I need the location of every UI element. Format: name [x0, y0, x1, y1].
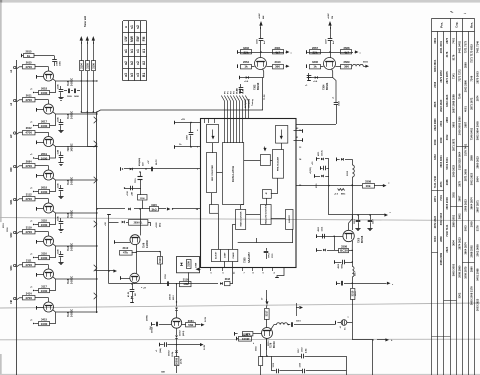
svg-text:c1: c1	[136, 49, 140, 53]
svg-text:456(AM): 456(AM)	[138, 158, 141, 166]
svg-text:3050A: 3050A	[151, 327, 154, 333]
junction 334 vertical	[334, 236, 335, 237]
svg-text:s1: s1	[130, 25, 134, 29]
stage 4 base stub	[36, 174, 38, 178]
stub row 159	[316, 157, 318, 161]
capacitor decoupling stage 1	[60, 86, 62, 90]
svg-text:3602: 3602	[433, 37, 437, 43]
svg-text:COMP: COMP	[224, 252, 226, 258]
svg-text:3003: 3003	[433, 236, 437, 242]
svg-text:4k7: 4k7	[344, 50, 349, 54]
svg-text:3605 2008: 3605 2008	[445, 197, 449, 210]
arrow row 209	[168, 208, 169, 210]
wire lower cap row	[124, 188, 141, 190]
svg-text:3310: 3310	[275, 60, 281, 64]
arrow AM out AM	[286, 66, 288, 68]
wire AM emitter to bus	[262, 78, 264, 111]
svg-text:PRE-SCALER: PRE-SCALER	[276, 156, 279, 171]
svg-text:4700: 4700	[25, 98, 32, 102]
scan top-left dark corner	[0, 0, 2, 3]
svg-text:7271 7173 6315: 7271 7173 6315	[469, 44, 473, 63]
resistor 3306 FM	[310, 65, 321, 69]
stage 1 bus tap circle	[14, 66, 16, 68]
svg-text:5401 5402: 5401 5402	[457, 40, 461, 53]
capacitor 1319 output	[276, 369, 278, 374]
capacitor output row	[288, 324, 290, 326]
resistor 3116	[39, 256, 50, 260]
IC sub-block PHASE COMPARATOR wide	[212, 250, 238, 262]
resistor 3111	[23, 263, 36, 267]
antenna wire 3 upper	[93, 42, 95, 61]
svg-text:7146: 7146	[457, 93, 461, 99]
arrow row 215	[384, 214, 386, 216]
svg-text:3602 3604 2008: 3602 3604 2008	[475, 121, 479, 140]
stage 3 emitter terminator	[35, 158, 39, 160]
wire FM emitter down	[333, 78, 336, 103]
transistor 7140 base stub	[114, 240, 116, 244]
svg-text:3111: 3111	[26, 259, 32, 263]
svg-text:1005: 1005	[56, 60, 58, 66]
svg-text:390: 390	[275, 65, 280, 69]
svg-text:S310: S310	[347, 170, 349, 176]
svg-text:2865: 2865	[469, 155, 473, 161]
svg-text:30005: 30005	[147, 314, 149, 321]
wire collector FM	[330, 52, 332, 58]
svg-text:BLPC: BLPC	[156, 159, 158, 165]
svg-text:7305: 7305	[244, 257, 247, 263]
svg-text:7148: 7148	[67, 179, 70, 185]
IC right stub row 131	[294, 130, 303, 132]
IC sub-block varactor box right	[276, 126, 288, 144]
resistor 3414	[23, 296, 36, 300]
svg-text:SWALLOW COUNTER: SWALLOW COUNTER	[264, 204, 267, 224]
svg-text:3415: 3415	[41, 318, 47, 322]
stage 5 base stub	[36, 207, 38, 211]
parts table row separator	[432, 252, 438, 254]
transistor stage 6	[44, 236, 54, 246]
inductor S310 coil	[352, 165, 354, 177]
stage 3 emitter branch wire	[50, 147, 56, 159]
wire module down	[188, 272, 190, 283]
svg-text:2815: 2815	[26, 50, 32, 54]
transistor stage 3	[44, 137, 54, 147]
arrow out top FM	[355, 52, 357, 54]
svg-text:71.06: 71.06	[264, 94, 266, 100]
svg-text:4700: 4700	[25, 230, 32, 234]
svg-text:7401 7146: 7401 7146	[475, 40, 479, 53]
wire FM emitter to IC pin	[296, 124, 336, 126]
capacitor 1317 output	[301, 354, 303, 359]
diode emitter FM	[315, 76, 318, 79]
resistor 3310 AM	[273, 65, 284, 69]
svg-text:3003: 3003	[463, 225, 467, 231]
wire cap to junction FM	[330, 41, 332, 52]
svg-text:BC/3C: BC/3C	[274, 341, 276, 348]
svg-text:22k: 22k	[312, 50, 317, 54]
lamp bulb	[341, 320, 347, 326]
wire tuning voltage bus	[97, 110, 261, 112]
transistor 7305 collector	[348, 223, 350, 230]
resistor 30006 vert	[175, 357, 179, 366]
svg-text:(2.2k): (2.2k)	[172, 351, 174, 357]
arrow supply AM +4.6V AM	[260, 23, 262, 29]
diode 6113	[109, 222, 119, 224]
page fold line bottom	[0, 338, 480, 341]
svg-text:2871 2872: 2871 2872	[439, 70, 443, 83]
svg-text:7271 7272: 7271 7272	[457, 69, 461, 82]
wire tuning diode row	[124, 168, 201, 170]
transistor stage 2	[44, 104, 54, 114]
svg-text:3002 3003: 3002 3003	[439, 212, 443, 225]
svg-text:2668: 2668	[344, 46, 350, 50]
board edge connector chevron	[94, 117, 97, 123]
resistor 3061	[182, 324, 186, 326]
svg-text:3119: 3119	[26, 226, 32, 230]
page fold line upper	[0, 218, 480, 221]
transistor stage 7	[44, 269, 54, 279]
parts table row separator	[450, 206, 462, 208]
svg-text:7148: 7148	[67, 80, 70, 86]
resistor 3100 isolated	[236, 337, 238, 341]
stage 2 emitter branch wire	[50, 114, 56, 126]
capacitor 1313	[322, 234, 324, 239]
svg-text:2687: 2687	[457, 195, 461, 201]
resistor antenna 3	[92, 61, 96, 71]
svg-text:3105: 3105	[85, 63, 89, 69]
svg-text:3118: 3118	[41, 219, 47, 223]
junction dots stage1 output with antenna wires	[81, 80, 82, 81]
stage 2 bus tap circle	[14, 99, 16, 101]
parts table row separator	[462, 262, 474, 264]
wire supply vertical FM	[330, 27, 332, 39]
svg-text:7148: 7148	[67, 113, 70, 119]
svg-text:3k3: 3k3	[151, 207, 156, 211]
wire vertical 329 tap	[328, 159, 330, 215]
resistor 3115	[150, 207, 159, 212]
terminator below IC right	[277, 267, 284, 277]
IC sub-block REF COUNTER	[207, 153, 217, 193]
svg-text:3061: 3061	[188, 319, 194, 323]
svg-text:3302: 3302	[457, 292, 461, 298]
output network left vertical resistor	[260, 344, 262, 357]
svg-text:+H: +H	[143, 288, 146, 290]
svg-text:2687: 2687	[463, 121, 467, 127]
wire junction right FM	[330, 52, 353, 54]
stage 2 emitter terminator	[35, 125, 39, 127]
wire FET down	[140, 184, 142, 195]
svg-text:2874: 2874	[475, 95, 479, 101]
stage 7 emitter terminator	[35, 290, 39, 292]
svg-text:7305: 7305	[359, 237, 361, 243]
svg-text:3302 2623: 3302 2623	[445, 94, 449, 107]
output network bottom wire	[272, 370, 276, 372]
wire VCO feed vertical	[266, 290, 268, 301]
svg-text:14303C: 14303C	[146, 240, 149, 248]
svg-text:3112: 3112	[122, 246, 128, 250]
stage 5 emitter terminator	[35, 224, 39, 226]
capacitor 4313	[342, 260, 344, 265]
svg-text:c2: c2	[136, 61, 140, 65]
svg-text:2874 2875: 2874 2875	[445, 71, 449, 84]
svg-text:14303C: 14303C	[71, 276, 74, 284]
capacitor 1316	[358, 215, 360, 220]
resistor 3116 bottom	[180, 282, 192, 287]
transistor 7176 output	[262, 328, 273, 339]
arrow out top AM	[286, 52, 288, 54]
inductor S310 vertical	[352, 159, 354, 165]
svg-text:3176: 3176	[445, 51, 449, 57]
svg-text:1000: 1000	[41, 322, 48, 326]
svg-text:5401 2088: 5401 2088	[475, 268, 479, 281]
FET 7115	[140, 172, 142, 177]
svg-text:7401: 7401	[439, 195, 443, 201]
stub into S310	[336, 158, 338, 162]
svg-text:2618: 2618	[41, 87, 47, 91]
zigzag below wire 185	[338, 189, 345, 191]
svg-text:3113: 3113	[158, 257, 162, 263]
stage 8 output wire	[53, 310, 97, 312]
svg-text:3302: 3302	[433, 154, 437, 160]
arrow supply FM +4.6V FM	[330, 23, 332, 29]
antenna wire 1 lower	[81, 71, 83, 112]
svg-text:3602: 3602	[457, 213, 461, 219]
transistor stage 4	[44, 170, 54, 180]
box 2009 delay	[129, 220, 148, 226]
svg-text:AFC(FM): AFC(FM)	[244, 99, 247, 108]
svg-text:OSC(AM): OSC(AM)	[248, 99, 251, 108]
resistor 2669 FM	[341, 65, 352, 69]
wire vertical 373 down	[372, 340, 374, 375]
IC U1 outline	[201, 119, 297, 268]
capacitor decoupling stage 4	[60, 185, 62, 189]
svg-text:2623: 2623	[445, 246, 449, 252]
resistor 3119	[23, 230, 36, 234]
IC sub-block divider small box	[263, 190, 272, 199]
stage 3 output wire	[53, 144, 97, 146]
svg-text:7371 7373: 7371 7373	[463, 40, 467, 53]
wire emitter to output network	[266, 339, 268, 357]
transistor 7141 base wire	[120, 276, 122, 280]
svg-text:2875: 2875	[445, 37, 449, 43]
svg-text:2860: 2860	[439, 236, 443, 242]
wire junction right AM	[261, 52, 284, 54]
stub row 168	[320, 166, 322, 170]
diode below 7175	[176, 328, 178, 335]
wire base row 236	[316, 234, 318, 238]
resistor antenna 2	[86, 61, 90, 71]
wire 296 arrow	[296, 303, 298, 316]
svg-text:BC: BC	[135, 292, 137, 296]
svg-text:3002 2623: 3002 2623	[469, 172, 473, 185]
resistor 3310 vertical	[352, 283, 354, 288]
resistor 2815 stage1 top feed	[21, 54, 23, 58]
scan bottom edge line	[0, 374, 480, 375]
svg-text:(BC): (BC)	[160, 222, 162, 227]
svg-text:2008: 2008	[433, 81, 437, 87]
svg-text:7141 7146: 7141 7146	[433, 175, 437, 188]
stage 1 output wire	[53, 79, 97, 81]
parts table column line 3	[443, 31, 445, 375]
svg-text:3604: 3604	[475, 176, 479, 182]
svg-text:2860: 2860	[445, 116, 449, 122]
svg-text:1000: 1000	[41, 124, 48, 128]
wire row 283 out	[352, 283, 353, 284]
svg-text:3104: 3104	[79, 63, 83, 69]
parts table column line 1	[431, 18, 433, 375]
svg-text:2088 2089: 2088 2089	[439, 252, 443, 265]
svg-text:(LW): (LW)	[306, 348, 308, 353]
svg-text:a1: a1	[124, 49, 128, 53]
output network side verticals	[271, 356, 273, 371]
svg-text:MW: MW	[130, 35, 134, 42]
svg-text:30112: 30112	[268, 340, 270, 346]
transistor 7141	[130, 273, 140, 283]
svg-text:a2: a2	[124, 61, 128, 65]
lamp socket indicator	[335, 321, 337, 325]
wire chain 176 top	[176, 283, 177, 284]
svg-text:3605: 3605	[433, 101, 437, 107]
svg-text:3115: 3115	[151, 203, 157, 207]
svg-text:5402 5401: 5402 5401	[445, 157, 449, 170]
wire junction to transistor	[140, 209, 142, 235]
svg-text:b2: b2	[130, 61, 134, 65]
antenna bus collector wire	[81, 112, 97, 114]
wire IC pin to +5V rail	[175, 122, 201, 124]
resistor 2618	[39, 91, 50, 95]
antenna feed arrow 3	[93, 38, 95, 44]
capacitor diode row	[151, 167, 153, 172]
stage 6 collector wire	[17, 232, 23, 234]
svg-text:2008 2623: 2008 2623	[463, 199, 467, 212]
svg-text:7146 5402: 7146 5402	[469, 127, 473, 140]
svg-text:A2: A2	[142, 61, 146, 65]
svg-text:2088 3302: 2088 3302	[469, 245, 473, 258]
resistor 3415	[39, 322, 50, 326]
svg-text:2669: 2669	[344, 60, 350, 64]
svg-text:7141: 7141	[451, 73, 455, 79]
svg-text:+1660: +1660	[156, 221, 158, 228]
antenna wire 2 lower	[87, 71, 89, 112]
inductor 5615 FM	[353, 64, 364, 66]
svg-text:A1: A1	[142, 49, 146, 53]
resistor 3317 vertical	[265, 309, 270, 320]
svg-text:2865: 2865	[463, 62, 467, 68]
svg-text:1009 3003 2080: 1009 3003 2080	[457, 116, 461, 135]
svg-text:MAIN COUNTER: MAIN COUNTER	[239, 211, 242, 226]
stage 5 output wire	[53, 211, 97, 213]
base row bar FM	[306, 64, 308, 68]
IC internal wires	[212, 143, 293, 267]
emitter row FM	[309, 77, 333, 79]
parts table row separator	[432, 336, 451, 338]
junction dot bus	[96, 111, 97, 112]
svg-text:3603 3604: 3603 3604	[433, 59, 437, 72]
svg-text:4700: 4700	[25, 65, 32, 69]
svg-text:Res.: Res.	[470, 22, 474, 28]
svg-text:BC548: BC548	[361, 235, 364, 243]
svg-text:2618: 2618	[41, 186, 47, 190]
svg-text:+5V: +5V	[181, 119, 185, 121]
stage 1 base stub	[36, 75, 38, 79]
stage 4 collector wire	[17, 166, 23, 168]
parts table column line 8	[474, 18, 476, 375]
resistor 2615	[23, 65, 36, 69]
svg-text:4001: 4001	[463, 106, 467, 112]
svg-text:4700: 4700	[25, 296, 32, 300]
diode 6612	[175, 308, 178, 311]
arrow row 185 out	[383, 185, 385, 187]
wire row 340	[352, 339, 373, 341]
stage 6 emitter branch wire	[50, 246, 56, 258]
resistor 3301 AM	[273, 50, 284, 54]
IC sub-block PRE-SCALER	[273, 150, 284, 179]
capacitor decoupling stage 3	[60, 152, 62, 156]
transistor 7175 base network	[151, 322, 153, 326]
capacitor row 283	[336, 281, 338, 285]
svg-text:3302: 3302	[451, 192, 455, 198]
resistor 3113	[160, 252, 162, 257]
svg-text:c3: c3	[136, 73, 140, 77]
svg-text:3604 2874: 3604 2874	[463, 242, 467, 255]
wire left base bus vertical	[16, 60, 18, 375]
wire junction row AM	[238, 52, 261, 54]
svg-text:3301: 3301	[275, 46, 281, 50]
stage 4 bus tap circle	[14, 165, 16, 167]
scan top edge strip	[0, 0, 480, 3]
wire bottom rail mid-left	[109, 283, 218, 285]
wire +5V vertical branch	[108, 214, 110, 284]
svg-text:1009: 1009	[433, 139, 437, 145]
svg-text:100R: 100R	[196, 262, 198, 268]
capacitor 1005 above stage 1	[54, 56, 56, 59]
scan left edge bar	[0, 3, 2, 223]
resistor 2618	[39, 190, 50, 194]
svg-text:2617: 2617	[41, 120, 47, 124]
svg-text:14B: 14B	[161, 371, 165, 374]
resistor 2667 FM	[310, 50, 321, 54]
svg-text:ADJUST: ADJUST	[215, 251, 218, 259]
stage 6 output wire	[53, 244, 97, 246]
wire 3308b to vertical	[349, 250, 352, 252]
svg-text:4700: 4700	[25, 263, 32, 267]
svg-text:(4.7k): (4.7k)	[180, 358, 183, 364]
board edge connector chevron	[94, 177, 97, 183]
svg-text:3L1N: 3L1N	[205, 317, 207, 322]
svg-text:3605 3003: 3605 3003	[451, 263, 455, 276]
capacitor AM emitter bypass	[240, 84, 242, 87]
capacitor decoupling stage 2	[60, 119, 62, 123]
wire emitter junction right	[136, 251, 160, 253]
svg-text:7148: 7148	[67, 311, 70, 317]
stage 7 collector wire	[17, 265, 23, 267]
resistor 2612	[23, 131, 36, 135]
svg-text:3604 2874: 3604 2874	[469, 197, 473, 210]
stage 3 base stub	[36, 141, 38, 145]
parts table column line 6	[462, 18, 464, 375]
svg-text:3604: 3604	[451, 240, 455, 246]
capacitor bottom rail	[167, 281, 169, 286]
svg-text:1000: 1000	[41, 190, 48, 194]
resistor 3112 mid	[120, 251, 133, 256]
capacitor chain 41.05	[131, 283, 132, 284]
wire row 344	[159, 343, 161, 347]
stage 1 emitter terminator	[35, 92, 39, 94]
wire 3112 to emitter	[132, 252, 137, 254]
emitter row AM	[240, 77, 264, 79]
IC sub-block MAIN COUNTER	[236, 210, 246, 230]
svg-text:2002 2860: 2002 2860	[463, 79, 467, 92]
svg-text:s2: s2	[136, 25, 140, 29]
